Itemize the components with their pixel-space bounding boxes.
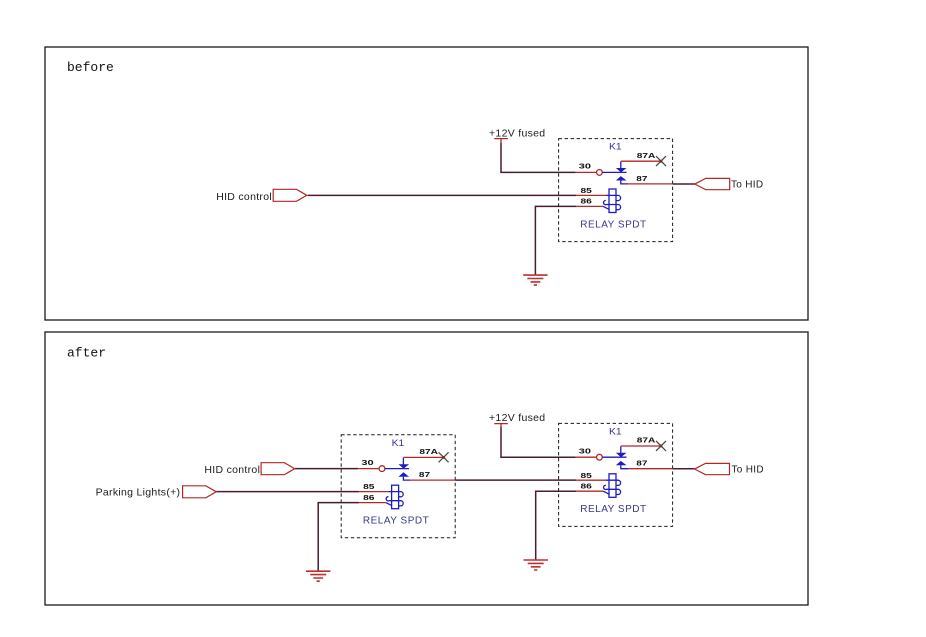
svg-text:after: after	[67, 346, 106, 361]
svg-text:+12V fused: +12V fused	[489, 412, 545, 424]
svg-text:Parking Lights(+): Parking Lights(+)	[96, 486, 181, 498]
svg-text:HID control: HID control	[216, 191, 272, 203]
svg-text:To HID: To HID	[731, 180, 763, 191]
svg-text:before: before	[67, 60, 114, 75]
svg-text:HID control: HID control	[204, 464, 260, 476]
svg-text:To HID: To HID	[732, 465, 764, 476]
svg-text:+12V fused: +12V fused	[489, 127, 545, 139]
